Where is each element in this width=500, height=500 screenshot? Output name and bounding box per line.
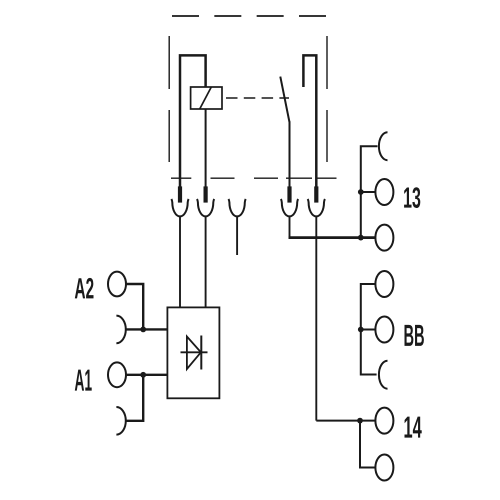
connector pin 1 plug (178, 186, 182, 202)
relay NO contact blade (280, 77, 289, 123)
connector socket 3 (unused) (229, 199, 246, 216)
terminal circle A2 (108, 272, 126, 297)
wire: node 14 horizontal to terminal circle (316, 420, 375, 422)
wire: socket 5 down to node 14 (315, 216, 317, 421)
diode D1 (181, 336, 208, 370)
label 14 (404, 417, 421, 438)
label A1 (75, 370, 92, 391)
terminal circle below 14 (375, 455, 393, 481)
wire: socket 3 stub (236, 216, 238, 255)
connector socket 1 (171, 199, 188, 216)
terminal circle BB (375, 317, 393, 343)
wire: A1 circle to diode box (126, 374, 167, 376)
terminal socket arc below A1 (116, 407, 125, 435)
terminal socket arc below BB (379, 361, 388, 389)
wire: coil supply loop from pin 1 up over to coil top (180, 55, 206, 187)
wire: coil bottom to pin 2 (205, 109, 207, 187)
label 13 (404, 187, 420, 208)
connector socket 4 (281, 199, 298, 216)
junction at A2 node (140, 327, 146, 333)
connector socket 5 (308, 199, 325, 216)
wire: BB group bus vertical (361, 284, 377, 375)
junction at 14 branch (357, 418, 363, 424)
label A2 (75, 278, 94, 299)
junction at BB circle branch (358, 327, 364, 333)
relay module dashed boundary: right edge (326, 36, 328, 162)
wire: contact fixed terminal loop down to pin 5 (303, 55, 316, 187)
connector pin 5 plug (314, 186, 318, 202)
connector socket 2 (197, 199, 214, 216)
terminal circle above BB (375, 271, 393, 297)
junction at 13 bus and contact wire (358, 235, 364, 241)
relay module dashed boundary: left edge (168, 36, 170, 162)
wire: socket 1 down to diode box (179, 216, 181, 308)
terminal circle A1 (108, 362, 126, 387)
wire: A2 circle to junction (126, 284, 143, 329)
mechanical link dashed line from coil to contact (226, 97, 289, 99)
connector pin 4 plug (287, 186, 291, 202)
wire: 14 branch down to spare circle (360, 421, 376, 468)
wire: A1 arc up to junction (125, 375, 143, 421)
relay coil K1 (191, 87, 222, 109)
terminal socket arc below A2 (116, 316, 125, 344)
wire: socket 2 down to diode box (205, 216, 207, 308)
wire: branch to terminal 13 circle (361, 191, 376, 193)
terminal circle 13 (375, 179, 393, 205)
label BB (405, 325, 424, 346)
wire: branch to terminal BB circle (361, 329, 376, 331)
wire: 13 group bus vertical (361, 146, 378, 237)
terminal circle below 13 (375, 225, 393, 251)
diode box (input circuit) (167, 307, 219, 398)
junction at A1 node (140, 372, 146, 378)
relay module dashed boundary: top edge (172, 15, 327, 17)
connector pin 2 plug (204, 186, 208, 202)
relay module dashed boundary: bottom edge (171, 177, 337, 179)
wire: contact blade down to pin 4 (289, 121, 291, 187)
terminal socket arc above 13 (379, 132, 388, 160)
wire: socket 4 down to node 13 (289, 216, 291, 238)
wire: node 13 thick horizontal to terminal circle (289, 236, 376, 239)
terminal circle 14 (375, 408, 393, 434)
wire: A2 arc to diode box (125, 328, 167, 330)
junction at 13 circle branch (358, 189, 364, 195)
